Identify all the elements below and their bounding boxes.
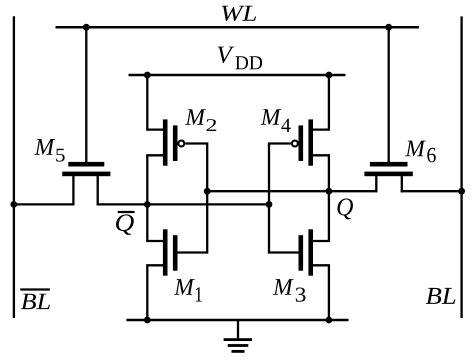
- ground symbol bar 2: [228, 344, 249, 347]
- op bubble of PMOS M2: [178, 141, 184, 147]
- wire M6 drain stub: [401, 175, 403, 192]
- junction node Q at inverter column: [326, 188, 333, 195]
- wire M2 gate to cross-couple (from bubble to node Q column): [185, 144, 207, 192]
- junction node Qbar at inverter column: [144, 201, 151, 208]
- junction ground left: [144, 317, 151, 324]
- label M2 subscript 2: [207, 119, 217, 131]
- wire node Q: M1/M2 gates to M6 source: [207, 190, 377, 192]
- junction node Q at BL: [458, 188, 465, 195]
- wire node Qbar: BLbar to M5 source: [14, 203, 75, 205]
- transistor M3 channel bar: [308, 229, 313, 275]
- wire VDD to M4 source: [313, 75, 329, 130]
- wire M1 gate to cross-couple (up to node Q wire): [178, 191, 208, 252]
- transistor M1 gate bar: [173, 235, 178, 271]
- junction node Q at M1/M2 gate column: [204, 188, 211, 195]
- wire WL to M6 gate: [388, 27, 390, 162]
- junction ground right: [326, 317, 333, 324]
- op bubble of PMOS M4: [292, 141, 298, 147]
- label M6: [405, 141, 426, 157]
- transistor M2 channel bar: [163, 119, 168, 165]
- wire M2 drain to node Qbar to M1 drain: [147, 155, 163, 241]
- transistor M4 gate bar: [299, 125, 304, 161]
- label M5: [34, 139, 55, 155]
- wire WL to M5 gate: [85, 27, 87, 162]
- transistor M2 gate bar: [173, 125, 178, 161]
- transistor M4 channel bar: [308, 119, 313, 165]
- junction on WL at M6 gate: [385, 24, 392, 31]
- label M1 subscript 1: [196, 287, 202, 301]
- junction node Qbar at BLbar: [10, 201, 17, 208]
- wire node Qbar: M5 drain to M3/M4 gates: [97, 203, 269, 205]
- wire M1 source to ground: [147, 265, 163, 320]
- transistor M5 gate bar: [68, 162, 104, 167]
- label node Q: [337, 198, 353, 219]
- label node Qbar: [116, 214, 134, 235]
- overline of BLbar label: [20, 288, 50, 290]
- wire WL (word line): [56, 26, 419, 29]
- wire M3 source to ground: [313, 265, 329, 320]
- label BL: [426, 288, 441, 304]
- transistor M6 channel bar: [364, 172, 412, 177]
- wire node Q: M6 drain to BL: [401, 190, 462, 192]
- ground symbol bar 1: [224, 338, 252, 341]
- wire M5 drain stub: [97, 175, 99, 206]
- wire M4 drain to node Q to M3 drain: [313, 155, 329, 241]
- transistor M3 gate bar: [299, 235, 304, 271]
- label M3 subscript 3: [296, 287, 306, 301]
- label VDD subscript DD: [235, 56, 248, 69]
- label M1: [174, 279, 195, 295]
- label M3: [273, 279, 294, 295]
- label M2: [185, 109, 206, 125]
- label WL: [222, 6, 245, 21]
- wire M5 source stub: [72, 175, 74, 206]
- wire M4 gate to cross-couple (from bubble to node Qbar column): [269, 144, 291, 205]
- wire VDD to M2 source: [147, 75, 163, 130]
- label VDD: [218, 47, 234, 63]
- junction on VDD left: [144, 72, 151, 79]
- transistor M6 gate bar: [370, 162, 408, 167]
- wire ground rail: [127, 319, 349, 322]
- junction node Qbar at M3/M4 gate column: [266, 201, 273, 208]
- label BLbar: [21, 294, 36, 309]
- transistor M5 channel bar: [62, 172, 110, 177]
- label M4: [261, 109, 282, 125]
- label M4 subscript 4: [281, 119, 290, 132]
- wire VDD rail: [129, 74, 346, 77]
- ground symbol bar 3: [232, 350, 245, 353]
- junction on WL at M5 gate: [83, 24, 90, 31]
- wire M3 gate to cross-couple (up to node Qbar wire): [269, 204, 299, 252]
- overline of Qbar label: [118, 211, 135, 213]
- wire M6 source stub: [375, 175, 377, 192]
- bit line BL (right vertical): [460, 16, 462, 318]
- label M6 subscript 6: [427, 148, 435, 163]
- bit line BLbar (left vertical): [13, 16, 15, 318]
- label M5 subscript 5: [56, 149, 64, 162]
- junction on VDD right: [326, 72, 333, 79]
- transistor M1 channel bar: [163, 229, 168, 275]
- ground symbol stem: [237, 320, 239, 339]
